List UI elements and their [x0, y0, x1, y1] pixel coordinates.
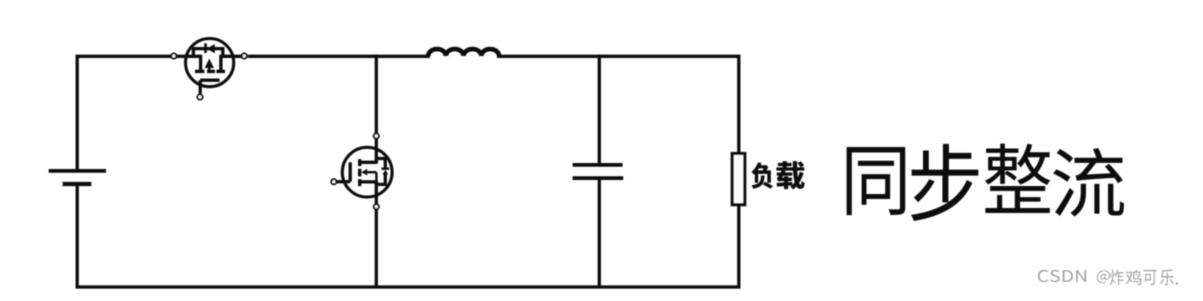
wire output rail drop to load	[737, 55, 740, 154]
wire left rail upper (input+)	[76, 55, 79, 172]
title text 同步整流 (synchronous rectification)	[847, 144, 1124, 221]
wire top-left segment (input+ to Q1 drain terminal)	[76, 55, 172, 58]
wire bottom ground rail	[76, 285, 741, 288]
resistor R-load body	[732, 154, 745, 205]
wire Q2 source to ground rail	[375, 209, 378, 288]
transistor Q2 low-side MOSFET	[331, 133, 392, 209]
battery BT1 long plate (+)	[49, 169, 106, 173]
label 负载 (load)	[751, 161, 804, 189]
wire top middle segment (Q1 source to inductor)	[248, 55, 430, 58]
wire left rail lower (input-)	[76, 184, 79, 288]
wire load to ground rail	[737, 205, 740, 289]
wire capacitor bottom stub	[598, 178, 601, 288]
wire switch-node drop to Q2 drain	[375, 55, 378, 134]
wire top right segment (inductor to output)	[497, 55, 740, 58]
battery BT1 short plate (-)	[63, 182, 92, 186]
transistor Q1 high-side MOSFET	[171, 39, 247, 100]
inductor L1	[428, 49, 499, 56]
wire capacitor top stub	[598, 55, 601, 165]
capacitor C1 bottom plate	[573, 176, 624, 180]
capacitor C1 top plate	[573, 163, 623, 167]
watermark CSDN @炸鸡可乐.	[1038, 269, 1178, 285]
